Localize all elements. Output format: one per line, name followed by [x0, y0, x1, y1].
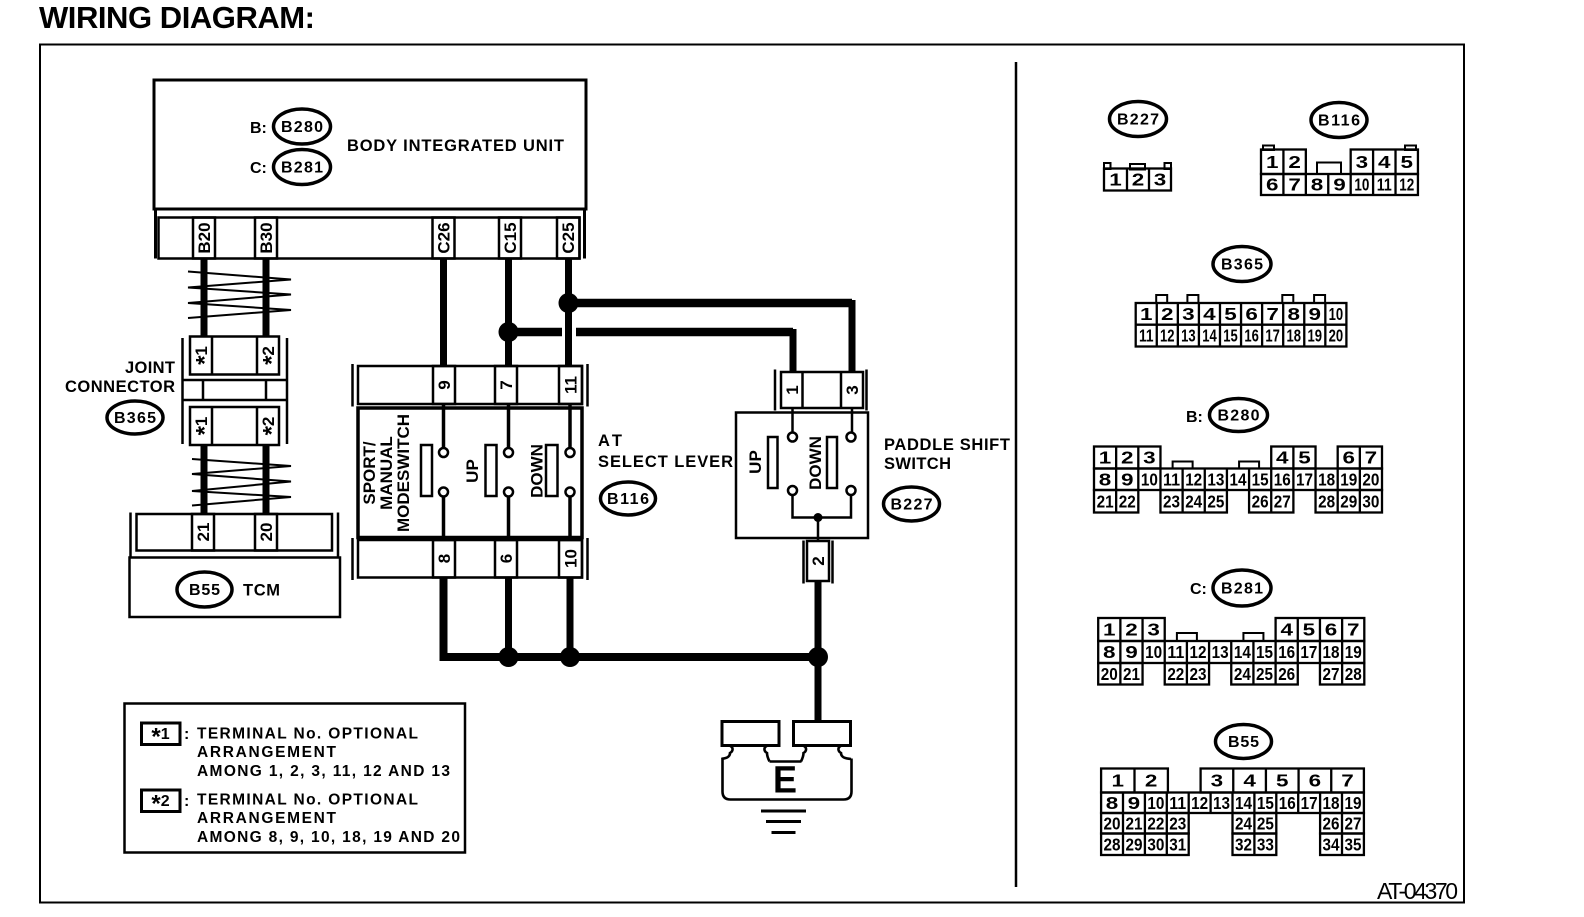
svg-text:17: 17 — [1301, 793, 1318, 813]
svg-text:27: 27 — [1344, 813, 1361, 833]
connector oval B280 — [274, 109, 331, 144]
junction node on C25 wire — [559, 293, 579, 313]
svg-text:30: 30 — [1147, 834, 1164, 854]
connector oval B55 (pinout) — [1216, 725, 1272, 759]
svg-text:DOWN: DOWN — [806, 436, 825, 490]
svg-text:7: 7 — [1341, 771, 1354, 791]
svg-text:3: 3 — [843, 385, 862, 394]
ground bus from B116 pins 8/6/10 — [444, 578, 819, 658]
svg-text:25: 25 — [1257, 813, 1274, 833]
svg-text:8: 8 — [1287, 304, 1300, 324]
wire joint connector to TCM pin 21 — [201, 445, 208, 514]
wire B116 pin 6 to ground bus — [505, 578, 512, 658]
svg-text:B281: B281 — [1221, 581, 1263, 598]
down switch top lead — [568, 404, 572, 448]
pin C15 cell — [499, 218, 521, 259]
svg-text:24: 24 — [1234, 664, 1251, 684]
svg-text:B55: B55 — [189, 582, 220, 599]
wire drop to paddle pin 1 — [790, 329, 797, 372]
svg-text:2: 2 — [1288, 152, 1301, 172]
svg-text:B365: B365 — [114, 410, 156, 427]
svg-text:AMONG 1, 2, 3, 11, 12 AND 13: AMONG 1, 2, 3, 11, 12 AND 13 — [197, 763, 450, 780]
svg-text:PADDLE SHIFT: PADDLE SHIFT — [884, 436, 1010, 454]
svg-text:6: 6 — [1245, 304, 1258, 324]
svg-text:SWITCH: SWITCH — [884, 455, 951, 473]
svg-text:6: 6 — [1266, 175, 1279, 195]
svg-text:2: 2 — [1121, 448, 1134, 468]
svg-text:20: 20 — [1104, 813, 1121, 833]
vertical divider between schematic and pinout panel — [1015, 62, 1018, 887]
svg-text:3: 3 — [1154, 170, 1167, 190]
svg-text:B:: B: — [250, 120, 267, 137]
svg-text:27: 27 — [1323, 664, 1340, 684]
svg-text:4: 4 — [1378, 152, 1391, 172]
svg-text:15: 15 — [1223, 326, 1238, 346]
down switch bar — [546, 445, 558, 496]
pin 20 cell — [255, 514, 277, 551]
svg-text:11: 11 — [1139, 326, 1154, 346]
connector pinout B365 — [1136, 295, 1347, 347]
svg-text:6: 6 — [1325, 620, 1338, 640]
svg-text:29: 29 — [1340, 491, 1357, 511]
svg-text:7: 7 — [497, 380, 516, 389]
svg-text:13: 13 — [1207, 469, 1224, 489]
paddle pin2 left bracket — [802, 541, 805, 584]
svg-text:3: 3 — [1356, 152, 1369, 172]
paddle up bottom lead — [793, 495, 819, 518]
bus C25 to paddle pin 3 — [569, 299, 853, 308]
connector oval B280 (pinout) — [1210, 399, 1268, 432]
svg-text:18: 18 — [1323, 793, 1340, 813]
svg-text:10: 10 — [1141, 469, 1158, 489]
B116 top strip right bracket — [586, 364, 589, 407]
svg-text:35: 35 — [1344, 834, 1361, 854]
connector oval B281 (pinout) — [1213, 570, 1271, 606]
TCM strip right bracket — [337, 513, 340, 558]
bus C15 to paddle pin 1 (left of crossover) — [509, 328, 563, 337]
svg-text:14: 14 — [1235, 793, 1252, 813]
svg-text:16: 16 — [1244, 326, 1259, 346]
svg-text:29: 29 — [1125, 834, 1142, 854]
wire B30 to joint connector — [263, 259, 270, 338]
wire B116 pin 10 to ground bus — [567, 578, 574, 658]
svg-text:22: 22 — [1119, 491, 1136, 511]
paddle strip left bracket — [774, 370, 777, 411]
svg-text:20: 20 — [257, 523, 276, 542]
svg-text:17: 17 — [1296, 469, 1313, 489]
svg-text:B365: B365 — [1221, 257, 1263, 274]
svg-text:C15: C15 — [501, 222, 520, 253]
paddle down top contact — [847, 433, 856, 442]
svg-text:BODY INTEGRATED UNIT: BODY INTEGRATED UNIT — [347, 137, 564, 155]
svg-text:1: 1 — [1109, 170, 1122, 190]
sport switch bottom lead — [442, 497, 446, 541]
svg-text:24: 24 — [1235, 813, 1252, 833]
pin B20 cell — [193, 218, 215, 259]
svg-text:5: 5 — [1400, 152, 1413, 172]
svg-text:B280: B280 — [1218, 408, 1260, 425]
ground terminal right cap — [794, 722, 851, 746]
svg-text:11: 11 — [1169, 793, 1186, 813]
svg-text:8: 8 — [1311, 175, 1324, 195]
svg-text:34: 34 — [1323, 834, 1340, 854]
ground hatch line 3 — [772, 831, 796, 834]
svg-text:5: 5 — [1224, 304, 1237, 324]
svg-text:19: 19 — [1340, 469, 1357, 489]
sport switch top contact — [439, 448, 448, 457]
svg-text:12: 12 — [1185, 469, 1202, 489]
legend *2 symbol box — [142, 790, 181, 812]
svg-text:4: 4 — [1280, 620, 1293, 640]
svg-text:26: 26 — [1278, 664, 1295, 684]
svg-text:10: 10 — [562, 549, 581, 568]
svg-text:WIRING DIAGRAM:: WIRING DIAGRAM: — [39, 0, 315, 35]
ground hatch line 1 — [761, 810, 806, 813]
svg-text:1: 1 — [783, 385, 802, 394]
svg-text:B280: B280 — [281, 119, 323, 136]
paddle down switch top lead — [851, 408, 854, 433]
connector oval B365 (pinout) — [1213, 247, 1271, 282]
connector pinout B280 — [1094, 447, 1382, 513]
connector oval B116 (pinout) — [1311, 103, 1367, 138]
svg-text:19: 19 — [1345, 642, 1362, 662]
connector oval B227 (left) — [884, 487, 940, 521]
svg-text:8: 8 — [1099, 469, 1112, 489]
svg-text:AT-04370: AT-04370 — [1377, 878, 1458, 904]
pin 8 cell — [433, 540, 455, 578]
connector oval B227 (pinout) — [1110, 102, 1167, 137]
svg-text:10: 10 — [1145, 642, 1162, 662]
svg-text:12: 12 — [1191, 793, 1208, 813]
paddle pin 2 cell — [807, 541, 829, 581]
svg-text:23: 23 — [1189, 664, 1206, 684]
wire C25 to B116 pin 11 — [565, 259, 572, 367]
paddle up bottom contact — [788, 486, 797, 495]
svg-text:9: 9 — [1128, 793, 1141, 813]
svg-text:C25: C25 — [559, 222, 578, 253]
svg-text::: : — [184, 793, 189, 810]
svg-text:20: 20 — [1362, 469, 1379, 489]
svg-text:10: 10 — [1147, 793, 1164, 813]
paddle connector strip — [781, 372, 863, 408]
wire B20 to joint connector — [201, 259, 208, 338]
svg-text:32: 32 — [1235, 834, 1252, 854]
svg-text:21: 21 — [1125, 813, 1142, 833]
svg-text:3: 3 — [1211, 771, 1224, 791]
svg-text:24: 24 — [1185, 491, 1202, 511]
svg-text:ARRANGEMENT: ARRANGEMENT — [197, 810, 337, 827]
connector pinout B55 — [1101, 769, 1364, 856]
joint connector lower box — [190, 407, 279, 445]
svg-text:30: 30 — [1362, 491, 1379, 511]
svg-text:2: 2 — [1145, 771, 1158, 791]
pin 11 cell — [559, 366, 582, 404]
svg-text:13: 13 — [1212, 642, 1229, 662]
wire C15 to B116 pin 7 — [505, 259, 512, 367]
ground terminal body — [723, 759, 852, 800]
B116 top strip left bracket — [351, 364, 354, 407]
svg-text:B20: B20 — [195, 222, 214, 253]
junction node on C15 wire — [499, 322, 519, 342]
wire paddle pin 2 to ground — [815, 581, 822, 723]
up switch bottom contact — [504, 488, 513, 497]
joint connector left bracket — [181, 338, 184, 444]
svg-text:6: 6 — [1309, 771, 1322, 791]
svg-text:1: 1 — [1103, 620, 1116, 640]
connector oval B116 (left) — [601, 482, 656, 515]
pin B30 cell — [255, 218, 277, 259]
legend *1 symbol box — [142, 723, 181, 745]
svg-text:AMONG 8, 9, 10, 18, 19 AND 20: AMONG 8, 9, 10, 18, 19 AND 20 — [197, 829, 460, 846]
svg-text:B227: B227 — [1117, 112, 1159, 129]
svg-text:TCM: TCM — [243, 582, 280, 600]
svg-text:9: 9 — [1121, 469, 1134, 489]
joint connector middle band tick left — [202, 380, 205, 400]
connector pinout B281 — [1098, 618, 1364, 685]
ground terminal left cap — [722, 722, 779, 746]
svg-text:17: 17 — [1300, 642, 1317, 662]
svg-text:11: 11 — [1163, 469, 1180, 489]
svg-text:9: 9 — [1333, 175, 1346, 195]
junction node pin10/bus — [560, 647, 580, 667]
svg-text:4: 4 — [1276, 448, 1289, 468]
svg-text:5: 5 — [1303, 620, 1316, 640]
body integrated unit U1 box — [154, 80, 586, 209]
svg-text:C26: C26 — [435, 222, 454, 253]
svg-text:9: 9 — [435, 380, 454, 389]
pin 21 cell — [192, 514, 214, 551]
sport switch bar — [421, 445, 432, 496]
up switch top lead — [507, 404, 511, 448]
svg-text:UP: UP — [463, 459, 482, 483]
joint connector upper box — [190, 337, 279, 375]
wire joint connector to TCM pin 20 — [263, 445, 270, 514]
svg-text:22: 22 — [1167, 664, 1184, 684]
svg-text:13: 13 — [1213, 793, 1230, 813]
connector oval B281 — [274, 150, 331, 185]
down switch bottom contact — [566, 488, 575, 497]
svg-text:C:: C: — [1190, 581, 1207, 598]
svg-text:11: 11 — [1377, 175, 1392, 195]
ground hatch line 2 — [766, 820, 801, 823]
svg-text:23: 23 — [1163, 491, 1180, 511]
wire C26 to B116 pin 9 — [440, 259, 447, 367]
svg-text:9: 9 — [1125, 642, 1138, 662]
svg-text:9: 9 — [1309, 304, 1322, 324]
svg-text:E: E — [773, 760, 797, 802]
bus C15 to paddle pin 1 (right of crossover) — [576, 328, 793, 337]
legend box — [125, 704, 466, 853]
B116 bottom connector strip — [358, 540, 582, 578]
TCM box — [130, 558, 341, 618]
svg-text:JOINT: JOINT — [125, 359, 175, 377]
svg-text:5: 5 — [1276, 771, 1289, 791]
up switch top contact — [504, 448, 513, 457]
svg-text:3: 3 — [1147, 620, 1160, 640]
svg-text:22: 22 — [1147, 813, 1164, 833]
svg-text:7: 7 — [1288, 175, 1301, 195]
B116 bottom strip right bracket — [586, 538, 589, 580]
svg-text:28: 28 — [1345, 664, 1362, 684]
body integrated unit right side extension — [583, 209, 586, 259]
down switch top contact — [566, 448, 575, 457]
svg-text:15: 15 — [1256, 642, 1273, 662]
svg-text:31: 31 — [1169, 834, 1186, 854]
paddle shift switch box — [736, 413, 868, 539]
svg-text:10: 10 — [1329, 304, 1344, 324]
svg-text:16: 16 — [1274, 469, 1291, 489]
svg-text:DOWN: DOWN — [528, 444, 547, 498]
svg-text:6: 6 — [497, 554, 516, 563]
svg-text:14: 14 — [1234, 642, 1251, 662]
pin 10 cell — [559, 540, 582, 578]
pin C25 cell — [557, 218, 580, 259]
svg-text:13: 13 — [1181, 326, 1196, 346]
up switch bar — [486, 445, 497, 496]
joint connector middle band tick right — [265, 380, 268, 400]
svg-text:25: 25 — [1207, 491, 1224, 511]
svg-text:27: 27 — [1274, 491, 1291, 511]
ground terminal necks — [723, 746, 852, 762]
svg-text:26: 26 — [1252, 491, 1269, 511]
svg-text:2: 2 — [1125, 620, 1138, 640]
svg-text:16: 16 — [1279, 793, 1296, 813]
up switch bottom lead — [507, 497, 511, 541]
paddle strip right bracket — [865, 370, 868, 411]
svg-text:7: 7 — [1266, 304, 1279, 324]
TCM strip left bracket — [129, 513, 132, 558]
svg-text:14: 14 — [1202, 326, 1217, 346]
svg-text:MODESWITCH: MODESWITCH — [394, 414, 413, 532]
pin C26 cell — [433, 218, 455, 259]
svg-text:B227: B227 — [891, 497, 933, 514]
junction node pin6/bus — [499, 647, 519, 667]
svg-text:16: 16 — [1278, 642, 1295, 662]
svg-text:8: 8 — [435, 554, 454, 563]
svg-text:20: 20 — [1101, 664, 1118, 684]
svg-text:19: 19 — [1344, 793, 1361, 813]
svg-text:2: 2 — [809, 556, 828, 565]
joint connector lower cell divider right — [256, 407, 259, 445]
connector pinout B116 — [1261, 146, 1418, 196]
svg-text:19: 19 — [1308, 326, 1323, 346]
svg-text:1: 1 — [1112, 771, 1125, 791]
svg-text:8: 8 — [1103, 642, 1116, 662]
svg-text:2: 2 — [1161, 304, 1174, 324]
svg-text:25: 25 — [1256, 664, 1273, 684]
svg-text:8: 8 — [1106, 793, 1119, 813]
TCM connector strip — [137, 514, 333, 551]
svg-text:UP: UP — [746, 450, 765, 474]
svg-text:11: 11 — [1167, 642, 1184, 662]
B116 top connector strip — [358, 366, 582, 404]
svg-text:18: 18 — [1318, 469, 1335, 489]
svg-text:21: 21 — [1097, 491, 1114, 511]
paddle down switch bar — [827, 437, 837, 488]
svg-text:12: 12 — [1160, 326, 1175, 346]
twisted pair marks lower — [192, 459, 291, 506]
twisted pair marks upper — [188, 272, 291, 319]
svg-text:28: 28 — [1318, 491, 1335, 511]
svg-text:3: 3 — [1143, 448, 1156, 468]
down switch bottom lead — [568, 497, 572, 541]
paddle down bottom lead — [818, 495, 851, 518]
paddle pin2 right bracket — [831, 541, 834, 584]
connector oval B55 (left) — [177, 572, 232, 607]
svg-text:10: 10 — [1354, 175, 1369, 195]
svg-text:B:: B: — [1186, 409, 1203, 426]
paddle strip divider 1 — [801, 372, 804, 408]
svg-text:SELECT LEVER: SELECT LEVER — [598, 453, 733, 471]
svg-text:TERMINAL No. OPTIONAL: TERMINAL No. OPTIONAL — [197, 726, 418, 743]
svg-text:28: 28 — [1104, 834, 1121, 854]
svg-text:11: 11 — [562, 376, 581, 394]
joint connector lower cell divider left — [211, 407, 214, 445]
svg-text:12: 12 — [1399, 175, 1414, 195]
svg-text:6: 6 — [1343, 448, 1356, 468]
joint connector upper cell divider right — [256, 337, 259, 375]
svg-text:B55: B55 — [1228, 734, 1259, 751]
svg-text::: : — [184, 726, 189, 743]
joint connector right bracket — [286, 338, 289, 444]
paddle down bottom contact — [847, 486, 856, 495]
svg-text:20: 20 — [1329, 326, 1344, 346]
svg-text:26: 26 — [1323, 813, 1340, 833]
svg-text:18: 18 — [1286, 326, 1301, 346]
svg-text:1: 1 — [1140, 304, 1153, 324]
svg-text:5: 5 — [1298, 448, 1311, 468]
svg-text:B116: B116 — [607, 491, 649, 508]
svg-text:CONNECTOR: CONNECTOR — [65, 378, 175, 396]
junction node paddle/bus — [808, 647, 828, 667]
paddle up switch bar — [768, 437, 778, 488]
svg-text:14: 14 — [1230, 469, 1247, 489]
svg-text:B30: B30 — [257, 222, 276, 253]
svg-text:21: 21 — [1123, 664, 1140, 684]
svg-text:TERMINAL No. OPTIONAL: TERMINAL No. OPTIONAL — [197, 792, 418, 809]
pin 7 cell — [495, 366, 517, 404]
svg-text:33: 33 — [1257, 834, 1274, 854]
paddle strip divider 2 — [840, 372, 843, 408]
paddle up switch top lead — [791, 408, 794, 433]
svg-text:17: 17 — [1265, 326, 1280, 346]
connector oval B365 (left) — [107, 401, 163, 434]
svg-text:B116: B116 — [1318, 113, 1360, 130]
svg-text:12: 12 — [1189, 642, 1206, 662]
svg-text:1: 1 — [1266, 152, 1279, 172]
svg-text:4: 4 — [1203, 304, 1216, 324]
svg-text:23: 23 — [1169, 813, 1186, 833]
svg-text:ARRANGEMENT: ARRANGEMENT — [197, 744, 337, 761]
svg-text:7: 7 — [1347, 620, 1360, 640]
svg-text:3: 3 — [1182, 304, 1195, 324]
svg-text:B281: B281 — [281, 160, 323, 177]
svg-text:C:: C: — [250, 160, 267, 177]
AT select lever switch box — [358, 408, 582, 538]
svg-text:21: 21 — [194, 523, 213, 542]
sport switch top lead — [442, 404, 446, 448]
svg-text:18: 18 — [1323, 642, 1340, 662]
svg-text:2: 2 — [1132, 170, 1145, 190]
paddle common junction — [814, 513, 823, 522]
svg-text:4: 4 — [1243, 771, 1256, 791]
wire drop to paddle pin 3 — [849, 300, 856, 372]
paddle common lead to pin 2 — [817, 518, 820, 542]
pin 9 cell — [433, 366, 455, 404]
svg-text:1: 1 — [1099, 448, 1112, 468]
joint connector upper cell divider left — [211, 337, 214, 375]
B116 bottom strip left bracket — [351, 538, 354, 580]
